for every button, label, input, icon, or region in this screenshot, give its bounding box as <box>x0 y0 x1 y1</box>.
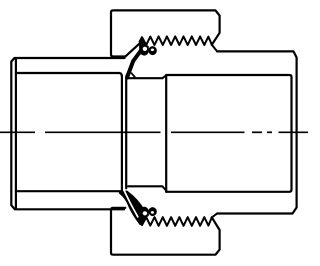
top thread zigzag <box>140 36 218 51</box>
top thread start curl 1 <box>139 38 149 56</box>
centerline segment 5 (short dash) <box>267 131 272 133</box>
top joint flange seat stroke a <box>126 72 129 76</box>
centerline segment 3 (long dash through right body) <box>171 131 245 133</box>
left body inner wall vertical <box>15 59 17 209</box>
centerline segment 6 (far right) <box>279 131 309 133</box>
right body inner socket outline <box>166 75 291 192</box>
centerline segment 4 (short dash) <box>252 131 262 133</box>
bottom joint clearance sliver (white) <box>124 190 138 217</box>
top joint nut outer cone edge <box>125 42 141 56</box>
flange surface line (top) <box>128 77 162 79</box>
step connector (top) <box>162 75 166 78</box>
right body socket face vertical <box>165 75 167 192</box>
joint vertical (flange edge, left) <box>121 76 123 192</box>
joint vertical (flange edge, right) <box>125 79 127 188</box>
bottom joint cone beak (filled band) <box>119 191 145 226</box>
top thread start curl 2 <box>148 46 156 55</box>
centerline segment 2 (long dash through left body) <box>45 131 161 133</box>
left body inner bottom line <box>16 190 121 192</box>
top curl 1 white eye <box>143 47 147 51</box>
left body outer outline with chamfered corners <box>11 58 124 209</box>
top curl 2 white eye <box>151 49 154 52</box>
flange surface line (bottom) <box>128 185 162 187</box>
bottom thread zigzag <box>140 213 218 225</box>
bottom thread start curl 1 <box>139 207 149 225</box>
bottom union nut outline <box>111 208 220 255</box>
step connector (bottom) <box>162 186 166 190</box>
centerline segment 1 (far left) <box>0 131 35 133</box>
top joint flange seat stroke b <box>132 73 135 77</box>
bottom thread start curl 2 <box>148 207 156 216</box>
right body outer outline with chamfered corners <box>217 51 296 213</box>
bottom curl 1 white eye <box>143 211 147 215</box>
bottom curl 2 white eye <box>151 211 154 214</box>
left body inner top line <box>16 73 122 77</box>
top union nut outline <box>111 10 220 56</box>
top joint nut inner cone edge (thick) <box>127 49 142 77</box>
